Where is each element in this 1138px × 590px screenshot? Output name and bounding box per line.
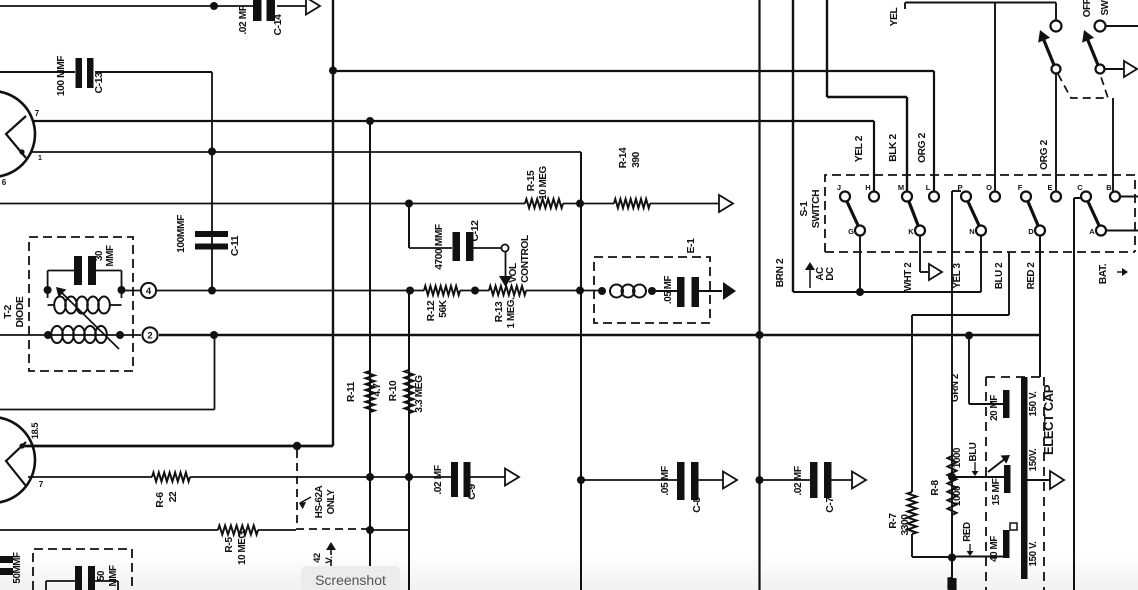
- svg-text:1: 1: [38, 155, 42, 162]
- svg-text:O: O: [986, 183, 992, 192]
- svg-text:YEL 2: YEL 2: [854, 135, 865, 162]
- svg-text:C-13: C-13: [94, 72, 105, 94]
- svg-text:VOL: VOL: [508, 263, 519, 283]
- svg-text:22: 22: [168, 491, 179, 502]
- svg-text:L: L: [926, 183, 931, 192]
- svg-text:R-6: R-6: [155, 492, 166, 508]
- svg-text:BLU: BLU: [968, 442, 979, 461]
- svg-text:R-7: R-7: [888, 513, 899, 529]
- svg-text:R-8: R-8: [930, 480, 941, 496]
- svg-text:ORG 2: ORG 2: [917, 132, 928, 162]
- svg-text:C: C: [1077, 183, 1083, 192]
- svg-text:S-1: S-1: [799, 201, 810, 217]
- svg-text:.02 MF: .02 MF: [238, 5, 249, 34]
- svg-text:OFF: OFF: [1082, 0, 1093, 17]
- svg-text:DC: DC: [825, 267, 836, 281]
- svg-text:SW: SW: [1100, 0, 1111, 15]
- svg-text:7: 7: [35, 109, 40, 118]
- svg-text:100MMF: 100MMF: [176, 215, 187, 253]
- svg-text:C-12: C-12: [470, 220, 481, 242]
- svg-text:C-8: C-8: [692, 497, 703, 513]
- svg-text:4.7: 4.7: [372, 383, 383, 397]
- svg-text:K: K: [908, 227, 914, 236]
- svg-text:BLK 2: BLK 2: [888, 134, 899, 162]
- svg-text:20 MF: 20 MF: [989, 395, 1000, 421]
- svg-text:1 MEG.: 1 MEG.: [506, 297, 517, 328]
- svg-text:50: 50: [96, 570, 107, 581]
- svg-text:42: 42: [312, 553, 322, 563]
- svg-text:.05 MF: .05 MF: [660, 466, 671, 495]
- svg-text:30: 30: [94, 250, 105, 261]
- svg-text:R-11: R-11: [346, 381, 357, 402]
- svg-text:1000: 1000: [952, 485, 963, 506]
- svg-text:.02 MF: .02 MF: [433, 465, 444, 494]
- svg-text:4700 MMF: 4700 MMF: [434, 224, 445, 270]
- svg-text:RED 2: RED 2: [1026, 262, 1037, 290]
- svg-text:F: F: [1018, 183, 1023, 192]
- svg-text:.02 MF: .02 MF: [793, 466, 804, 495]
- svg-text:M: M: [898, 183, 904, 192]
- svg-text:56K: 56K: [438, 299, 449, 318]
- svg-text:390: 390: [631, 151, 642, 168]
- svg-text:YEL 3: YEL 3: [952, 263, 963, 289]
- svg-text:B: B: [1106, 183, 1112, 192]
- svg-text:H: H: [865, 183, 870, 192]
- svg-text:R-14: R-14: [618, 147, 629, 168]
- svg-text:R-12: R-12: [426, 300, 437, 321]
- svg-text:MMF: MMF: [105, 245, 116, 267]
- svg-text:CONTROL: CONTROL: [520, 235, 531, 283]
- svg-text:RED: RED: [962, 522, 973, 542]
- svg-text:150 V.: 150 V.: [1028, 391, 1039, 417]
- svg-text:18.5: 18.5: [30, 423, 40, 440]
- svg-text:E: E: [1047, 183, 1052, 192]
- svg-text:100 MMF: 100 MMF: [56, 56, 67, 96]
- svg-text:DIODE: DIODE: [15, 296, 26, 327]
- svg-text:C-9: C-9: [467, 484, 478, 500]
- svg-text:ORG 2: ORG 2: [1039, 139, 1050, 169]
- svg-text:E-1: E-1: [686, 238, 697, 254]
- svg-text:J: J: [837, 183, 841, 192]
- svg-text:D: D: [1028, 227, 1034, 236]
- svg-text:G: G: [848, 227, 854, 236]
- svg-text:A: A: [1089, 227, 1095, 236]
- svg-text:1000: 1000: [952, 447, 963, 468]
- svg-text:3300: 3300: [900, 514, 911, 536]
- svg-text:50MMF: 50MMF: [12, 552, 23, 584]
- svg-text:R-13: R-13: [494, 301, 505, 322]
- svg-text:40 MF: 40 MF: [989, 536, 1000, 562]
- svg-text:C-14: C-14: [273, 14, 284, 36]
- svg-text:C-7: C-7: [825, 497, 836, 513]
- svg-text:C-11: C-11: [230, 235, 241, 256]
- svg-text:R-10: R-10: [388, 380, 399, 401]
- svg-text:WHT 2: WHT 2: [903, 262, 914, 291]
- svg-text:2: 2: [147, 331, 152, 342]
- svg-text:15 MF: 15 MF: [991, 478, 1002, 505]
- svg-text:MMF: MMF: [108, 565, 119, 587]
- svg-text:GRN 2: GRN 2: [950, 373, 961, 402]
- svg-text:10 MEG.: 10 MEG.: [237, 528, 248, 565]
- svg-text:N: N: [969, 227, 974, 236]
- svg-text:BLU 2: BLU 2: [994, 262, 1005, 289]
- svg-text:150V.: 150V.: [1028, 448, 1039, 471]
- svg-text:ONLY: ONLY: [326, 489, 337, 515]
- svg-text:7: 7: [39, 480, 44, 489]
- svg-text:V.: V.: [324, 556, 334, 563]
- svg-text:10 MEG: 10 MEG: [538, 165, 549, 199]
- svg-text:BRN 2: BRN 2: [775, 258, 786, 287]
- svg-text:R-15: R-15: [526, 170, 537, 191]
- svg-text:6: 6: [2, 178, 7, 187]
- svg-text:3.3 MEG: 3.3 MEG: [414, 375, 425, 413]
- svg-text:.05 MF: .05 MF: [663, 276, 674, 305]
- svg-text:150 V.: 150 V.: [1028, 541, 1039, 567]
- svg-text:R-5: R-5: [224, 537, 235, 553]
- svg-text:YEL: YEL: [889, 8, 900, 27]
- svg-text:ELECT CAP: ELECT CAP: [1041, 384, 1056, 455]
- svg-text:T-2: T-2: [3, 304, 14, 318]
- svg-text:BAT.: BAT.: [1098, 263, 1109, 284]
- svg-text:SWITCH: SWITCH: [811, 190, 822, 229]
- svg-text:HS-62A: HS-62A: [314, 485, 325, 518]
- svg-text:4: 4: [146, 286, 152, 297]
